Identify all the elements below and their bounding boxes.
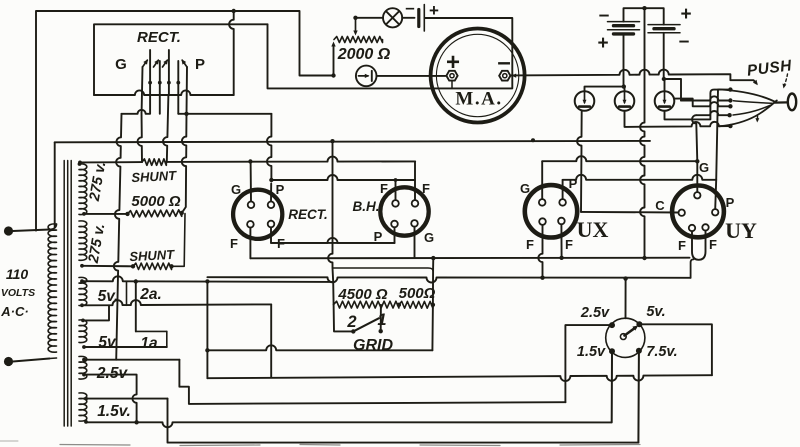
svg-text:275 v.: 275 v. <box>86 222 109 265</box>
UX P lead up to plate line <box>562 180 564 199</box>
RECT pin P <box>268 202 275 209</box>
2.5v top tap to bus B <box>84 359 179 361</box>
secondary winding 2.5v <box>79 356 87 379</box>
secondary winding 5v (2a) <box>79 277 87 305</box>
UY pin F2 <box>702 224 708 230</box>
svg-text:GRID: GRID <box>353 337 393 354</box>
RECT pin G <box>248 202 255 209</box>
svg-text:A·C·: A·C· <box>0 304 28 319</box>
contact 2.5v <box>609 322 615 328</box>
pin jack 1 <box>575 91 595 111</box>
strap over grid resistors <box>333 268 433 271</box>
battery B3 lead down to jack 3 <box>663 33 665 79</box>
UX F2 lead down to filament bus <box>560 224 562 257</box>
svg-text:–: – <box>497 49 510 76</box>
junction on top wire <box>232 9 236 13</box>
socket pin receptacle 2 <box>159 61 161 95</box>
push switch contact dots <box>728 87 732 91</box>
A.C. terminal lower <box>4 357 13 366</box>
RECT F1 lead down to filament bus <box>249 228 251 259</box>
battery B2 lead down to jacks <box>623 34 625 87</box>
wire dot lamp branch <box>353 16 357 20</box>
svg-text:+: + <box>429 1 439 20</box>
RECT pin F1 <box>247 221 254 228</box>
contact 5v <box>636 321 642 327</box>
milliammeter inner ring <box>436 34 518 116</box>
UX pin F1 <box>539 218 546 225</box>
branch to push contact 2 <box>664 79 681 101</box>
plate line right segment (y=180) <box>563 175 717 180</box>
svg-text:5v.: 5v. <box>98 288 119 305</box>
svg-text:VOLTS: VOLTS <box>1 287 35 299</box>
meter + terminal nut <box>446 71 457 81</box>
svg-text:1.5v.: 1.5v. <box>97 403 131 420</box>
svg-text:1.5v: 1.5v <box>577 344 606 360</box>
wire 5v contact to right box edge <box>639 324 712 375</box>
tap to 5000 ohm <box>84 213 128 215</box>
bus C 1.5v line <box>86 422 612 427</box>
B.H. pin F2 <box>412 200 419 207</box>
svg-text:RECT.: RECT. <box>288 207 328 222</box>
svg-text:4500 Ω: 4500 Ω <box>337 286 388 303</box>
cathode line to UY C pin <box>581 211 678 214</box>
junction speck on bus 1 <box>531 138 535 142</box>
pin 4 drop to right feeder <box>177 95 179 114</box>
1.5v contact lead down <box>611 354 613 422</box>
milliammeter M.A. outer <box>431 29 525 123</box>
UY plate vertical from push area <box>716 90 718 180</box>
1.5v bottom tap joins bus C <box>84 420 88 424</box>
pilot lamp X <box>383 8 402 27</box>
svg-text:2.5v: 2.5v <box>580 305 610 321</box>
wire lamp to battery <box>402 17 414 19</box>
secondary winding 275v upper <box>79 164 87 215</box>
svg-text:–: – <box>679 31 690 52</box>
junction on strap <box>642 6 646 10</box>
wire meter - to push switch <box>511 70 757 84</box>
drop from 5v tap line to bus A <box>270 304 272 377</box>
battery B2 (left bank) <box>608 21 640 23</box>
wire from box top edge down and right under meter to battery branch <box>268 18 513 88</box>
svg-text:+: + <box>597 33 608 54</box>
pin 2 drop <box>159 95 161 114</box>
svg-text:SHUNT: SHUNT <box>129 247 176 264</box>
svg-text:F: F <box>380 181 388 196</box>
UX pin P <box>559 199 566 206</box>
svg-text:UX: UX <box>577 217 609 242</box>
pin jack 2 <box>615 91 635 111</box>
bus 2 grid bus left segment through SHUNT resistor <box>80 161 142 163</box>
svg-text:RECT.: RECT. <box>137 29 181 46</box>
battery B1 plates <box>417 10 420 27</box>
socket pin receptacle 4 <box>177 61 179 95</box>
1a cell top line <box>136 330 167 332</box>
svg-text:F: F <box>565 237 573 252</box>
wire 2.5v contact to left box edge <box>565 325 612 402</box>
jack 1 sleeve lead down to UY cathode line <box>577 111 582 212</box>
wire 500 ohm right down to bottom bus J <box>431 305 434 351</box>
UY F loop and drop to selector bus <box>692 231 706 260</box>
B.H. P lead down left <box>394 227 396 243</box>
push switch leaf springs <box>719 89 777 102</box>
selector knob arm <box>625 328 636 336</box>
RECT. test socket box outline <box>94 24 268 95</box>
svg-text:C: C <box>655 198 665 213</box>
resistor 500 ohm <box>399 301 433 308</box>
push button stem and cap <box>775 101 788 103</box>
battery B3 (right bank) <box>648 24 680 26</box>
svg-text:275 v.: 275 v. <box>87 160 110 203</box>
svg-text:F: F <box>230 236 238 251</box>
wire from upper A.C. terminal up left side and across the top to lamp branch <box>36 11 334 231</box>
svg-text:G: G <box>115 56 127 73</box>
svg-text:5000 Ω: 5000 Ω <box>131 193 181 210</box>
tube socket UX <box>525 185 577 237</box>
pin 3 drop to shunt 1 <box>163 95 168 162</box>
secondary winding 1.5v <box>79 393 87 421</box>
5v winding top tap line <box>82 276 333 282</box>
spring contact arrow 3 <box>163 60 168 67</box>
tap to SHUNT 2 <box>82 265 133 268</box>
bottom bus J to 2a drop <box>207 345 432 350</box>
1a winding bottom tap <box>84 346 167 348</box>
svg-text:F: F <box>678 238 686 253</box>
B.H. F1 lead up to plate line <box>395 180 397 200</box>
drop from bus1 to grid resistor left <box>328 141 334 305</box>
pin 1 drop and jog to left bus vertical <box>122 95 151 114</box>
spring contact arrow 1 <box>143 60 148 67</box>
tip jack symbol in meter + lead <box>356 66 377 87</box>
svg-text:G: G <box>520 181 530 196</box>
wire jack to meter + <box>377 75 446 77</box>
spring contact arrow 4 <box>182 60 187 67</box>
battery top strap <box>624 8 664 24</box>
wire lamp branch to rheostat wiper <box>356 17 384 19</box>
contact 1.5v <box>609 348 615 354</box>
UX pin G <box>539 199 546 206</box>
meter + drop to through wire <box>451 81 453 89</box>
rheostat 2000 ohm <box>334 37 383 43</box>
svg-text:P: P <box>195 56 205 73</box>
UY pin F1 <box>689 225 695 231</box>
grid switch contact 1 <box>379 329 383 333</box>
tube socket B.H. <box>380 187 428 235</box>
bus A 7.5/5v return <box>207 375 712 381</box>
UX F1 lead down to selector bus <box>538 225 542 278</box>
selector hub <box>620 334 626 340</box>
resistor 5000 ohm <box>128 210 182 217</box>
transformer core <box>63 161 65 427</box>
svg-text:+: + <box>446 49 460 76</box>
svg-text:500Ω: 500Ω <box>399 285 436 302</box>
RECT F2 lead down to B.H. plate line <box>271 227 395 243</box>
svg-text:2000 Ω: 2000 Ω <box>337 46 391 63</box>
wire RECT F2 to BH P hop <box>271 238 395 243</box>
1.5v top tap <box>86 398 168 400</box>
2a right drop to bus A <box>206 281 208 378</box>
svg-text:G: G <box>231 182 241 197</box>
svg-text:5v.: 5v. <box>646 304 665 320</box>
rheostat left terminal with up arrow <box>333 45 335 76</box>
UY G lead up <box>696 161 698 192</box>
svg-text:F: F <box>422 181 430 196</box>
svg-text:–: – <box>599 5 610 26</box>
jack 3 lead staircase to push contact 1 <box>665 90 731 120</box>
svg-text:G: G <box>699 160 709 175</box>
B.H. G lead down to filament bus <box>414 227 416 258</box>
socket pin receptacle 3 <box>168 50 170 95</box>
grid switch blade <box>353 318 379 331</box>
secondary winding 275v lower <box>79 221 87 260</box>
RECT P lead up to feeder <box>267 114 271 202</box>
grid bus right segment UX G to UY G <box>542 156 697 161</box>
jack 2 lead to push contact 5 <box>625 111 731 127</box>
svg-text:SHUNT: SHUNT <box>131 168 178 185</box>
svg-text:2a.: 2a. <box>139 286 162 303</box>
plate line left segment (y=180) <box>271 175 415 180</box>
svg-text:1: 1 <box>377 311 386 329</box>
selector feed from bus <box>625 279 627 319</box>
2a cell separator <box>126 281 128 305</box>
filament bus (y=258) <box>250 257 689 260</box>
transformer primary coil <box>48 224 56 352</box>
svg-text:+: + <box>680 4 691 25</box>
svg-text:UY: UY <box>725 218 757 243</box>
long vertical from battery strap to filament bus <box>640 8 644 258</box>
bus 1 (y=141.5) <box>54 142 56 227</box>
arrow into meter - nut <box>512 74 517 78</box>
1a cell left vertical <box>135 281 137 331</box>
selector bus (y=278) <box>207 277 690 282</box>
svg-text:B.H.: B.H. <box>353 199 380 214</box>
UY pin G <box>694 192 700 198</box>
print speckle artifacts at bottom edge <box>60 445 640 446</box>
push contact stub 4 <box>696 111 730 115</box>
primary top curl <box>50 224 57 230</box>
primary bottom curl <box>50 357 57 360</box>
svg-text:F: F <box>709 237 717 252</box>
svg-text:110: 110 <box>6 266 29 282</box>
drop from filament bus to 500 ohm right <box>432 258 434 305</box>
spring contact arrow 2 <box>154 60 159 67</box>
svg-text:P: P <box>569 176 578 191</box>
push contact stub 2 <box>681 96 730 100</box>
svg-text:2.5v: 2.5v <box>96 365 129 382</box>
svg-text:1a: 1a <box>140 335 158 352</box>
left vertical from pin feeder down the windings <box>114 114 122 360</box>
shunt 2 right link <box>172 214 186 267</box>
svg-text:M.A.: M.A. <box>455 89 502 110</box>
RECT pin F2 <box>268 221 275 228</box>
UX G lead up to grid bus corner <box>541 161 543 199</box>
svg-text:–: – <box>405 0 414 17</box>
5v 1a winding top step <box>83 305 109 320</box>
7.5v contact lead down <box>637 354 640 443</box>
5v winding bottom tap line <box>82 300 271 305</box>
voltage selector dial <box>606 318 645 357</box>
1a cell right vertical <box>166 331 168 347</box>
meter - terminal nut <box>499 71 510 81</box>
resistor 4500 ohm <box>334 301 399 308</box>
UY pin C <box>679 210 685 216</box>
B.H. pin G <box>411 220 418 227</box>
B.H. pin F1 <box>392 200 399 207</box>
pin jack 3 <box>655 91 675 111</box>
spring 1 wire drop to shunt 1 left <box>138 67 143 162</box>
svg-text:5v: 5v <box>98 334 117 351</box>
bus D 7.5v line <box>168 399 639 443</box>
contact 7.5v <box>636 348 642 354</box>
tube socket RECT <box>233 190 282 239</box>
bus B 2.5v line <box>179 360 565 404</box>
socket pin receptacle 1 <box>149 50 151 95</box>
wire right edge of socket box (hops top-edge wire) <box>229 11 234 95</box>
grid switch contact 2 wire <box>334 305 353 332</box>
spring 4 wire feeder down to 5000 ohm right <box>182 67 187 213</box>
B.H. F2 lead up to grid bus corner <box>414 162 416 201</box>
svg-text:P: P <box>276 182 285 197</box>
svg-text:7.5v.: 7.5v. <box>646 344 677 360</box>
UX pin F2 <box>558 218 565 225</box>
svg-text:2: 2 <box>346 313 356 331</box>
secondary winding 5v (1a) <box>79 320 87 343</box>
svg-text:PUSH: PUSH <box>746 57 793 79</box>
svg-text:P: P <box>374 229 383 244</box>
svg-text:G: G <box>424 230 434 245</box>
A.C. terminal upper <box>4 226 13 235</box>
RECT G lead up to grid bus <box>250 162 252 202</box>
UY pin P <box>712 209 718 215</box>
tube socket UY <box>672 186 724 238</box>
small arrow onto lower leaf <box>757 116 759 121</box>
feeder line 113.8 right segment to RECT plate lead <box>178 113 271 115</box>
UY P lead up to plate line <box>715 180 716 209</box>
B.H. pin P <box>391 221 398 228</box>
dashed arrow from PUSH to button <box>784 74 788 86</box>
push contact stub 3 <box>675 99 731 107</box>
resistor SHUNT 2 <box>133 263 172 269</box>
svg-text:F: F <box>526 237 534 252</box>
2.5v bottom tap <box>84 375 137 423</box>
svg-text:P: P <box>726 195 735 210</box>
